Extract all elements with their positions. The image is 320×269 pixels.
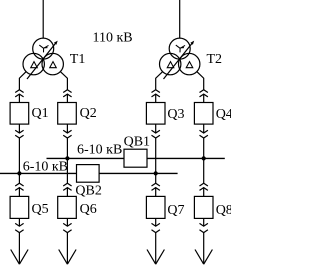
svg-text:QB2: QB2 xyxy=(75,184,101,199)
breaker Q3 drawout contacts (top) xyxy=(152,90,160,103)
svg-text:Q5: Q5 xyxy=(32,202,49,217)
wire T2 left winding to Q3 xyxy=(156,72,163,90)
bus tie QB2 xyxy=(77,165,100,183)
breaker Q8 xyxy=(194,196,213,218)
breaker Q2 drawout contacts (top) xyxy=(63,90,71,103)
breaker Q3 xyxy=(146,103,165,125)
T1 delta symbol (right winding) xyxy=(50,62,57,68)
svg-text:T1: T1 xyxy=(70,52,86,67)
wire incoming 110kV line to T1 xyxy=(42,0,44,39)
breaker Q5 drawout contacts (top) xyxy=(15,183,23,196)
svg-text:Q8: Q8 xyxy=(216,203,231,218)
wire feeder below Q7 xyxy=(155,233,157,264)
feeder arrow below Q7 xyxy=(147,250,164,265)
svg-text:Q6: Q6 xyxy=(80,202,97,217)
svg-text:Q2: Q2 xyxy=(80,106,97,121)
T2 delta symbol (left winding) xyxy=(167,62,174,68)
wire T1 right winding to Q2 xyxy=(60,72,67,90)
lower 6-10kV bus (left section) xyxy=(0,172,77,174)
breaker Q7 drawout contacts (bottom) xyxy=(152,218,160,232)
svg-text:Q4: Q4 xyxy=(216,107,231,122)
node Q1 to lower bus xyxy=(17,171,21,175)
breaker Q7 xyxy=(146,196,165,218)
lower 6-10kV bus (right section) xyxy=(99,172,178,174)
feeder arrow below Q8 xyxy=(195,250,212,265)
wire Q1 to lower bus and on to Q5 xyxy=(18,138,20,183)
wire Q2 to upper bus and on to Q6 xyxy=(66,138,68,183)
breaker Q6 xyxy=(58,196,77,218)
svg-text:Q3: Q3 xyxy=(167,107,184,122)
T2 wye symbol xyxy=(176,45,185,52)
breaker Q6 drawout contacts (bottom) xyxy=(63,218,71,232)
svg-text:110 кВ: 110 кВ xyxy=(93,31,133,46)
breaker Q8 drawout contacts (top) xyxy=(200,183,208,196)
wire feeder below Q6 xyxy=(66,233,68,264)
bus tie QB1 xyxy=(124,149,147,167)
wire feeder below Q5 xyxy=(18,233,20,264)
breaker Q1 drawout contacts (top) xyxy=(15,90,23,103)
breaker Q2 xyxy=(58,103,77,125)
wire incoming 110kV line to T2 xyxy=(179,0,181,39)
T1 wye symbol xyxy=(39,45,48,52)
svg-text:6-10 кВ: 6-10 кВ xyxy=(77,143,122,158)
breaker Q4 drawout contacts (top) xyxy=(200,90,208,103)
breaker Q1 xyxy=(10,103,29,125)
svg-text:QB1: QB1 xyxy=(124,134,150,149)
breaker Q8 drawout contacts (bottom) xyxy=(200,218,208,232)
node Q3 to lower bus xyxy=(154,171,158,175)
wire T1 left winding to Q1 xyxy=(19,72,26,90)
breaker Q6 drawout contacts (top) xyxy=(63,183,71,196)
breaker Q7 drawout contacts (top) xyxy=(152,183,160,196)
upper 6-10kV bus (right section) xyxy=(147,157,225,159)
breaker Q3 drawout contacts (bottom) xyxy=(152,124,160,138)
breaker Q5 xyxy=(10,196,29,218)
breaker Q5 drawout contacts (bottom) xyxy=(15,218,23,232)
breaker Q1 drawout contacts (bottom) xyxy=(15,124,23,138)
svg-text:Q1: Q1 xyxy=(32,106,49,121)
feeder arrow below Q5 xyxy=(11,250,28,265)
T2 tap-changer arrow xyxy=(164,44,192,80)
T1 delta symbol (left winding) xyxy=(31,62,38,68)
breaker Q2 drawout contacts (bottom) xyxy=(63,124,71,138)
wire Q4 to upper bus and on to Q8 xyxy=(203,138,205,183)
wire T2 right winding to Q4 xyxy=(197,72,204,90)
svg-text:T2: T2 xyxy=(207,52,223,67)
wire Q3 to lower bus and on to Q7 xyxy=(155,138,157,183)
svg-text:6-10 кВ: 6-10 кВ xyxy=(23,159,68,174)
breaker Q4 xyxy=(194,103,213,125)
T2 delta symbol (right winding) xyxy=(186,62,193,68)
upper 6-10kV bus (left section) xyxy=(47,157,125,159)
T1 tap-changer arrow xyxy=(27,44,55,80)
transformer T2 xyxy=(160,38,200,79)
feeder arrow below Q6 xyxy=(59,250,76,265)
svg-text:Q7: Q7 xyxy=(167,203,184,218)
node Q2 to upper bus xyxy=(65,156,69,160)
transformer T1 xyxy=(23,38,63,79)
wire feeder below Q8 xyxy=(203,233,205,264)
node Q4 to upper bus xyxy=(202,156,206,160)
breaker Q4 drawout contacts (bottom) xyxy=(200,124,208,138)
